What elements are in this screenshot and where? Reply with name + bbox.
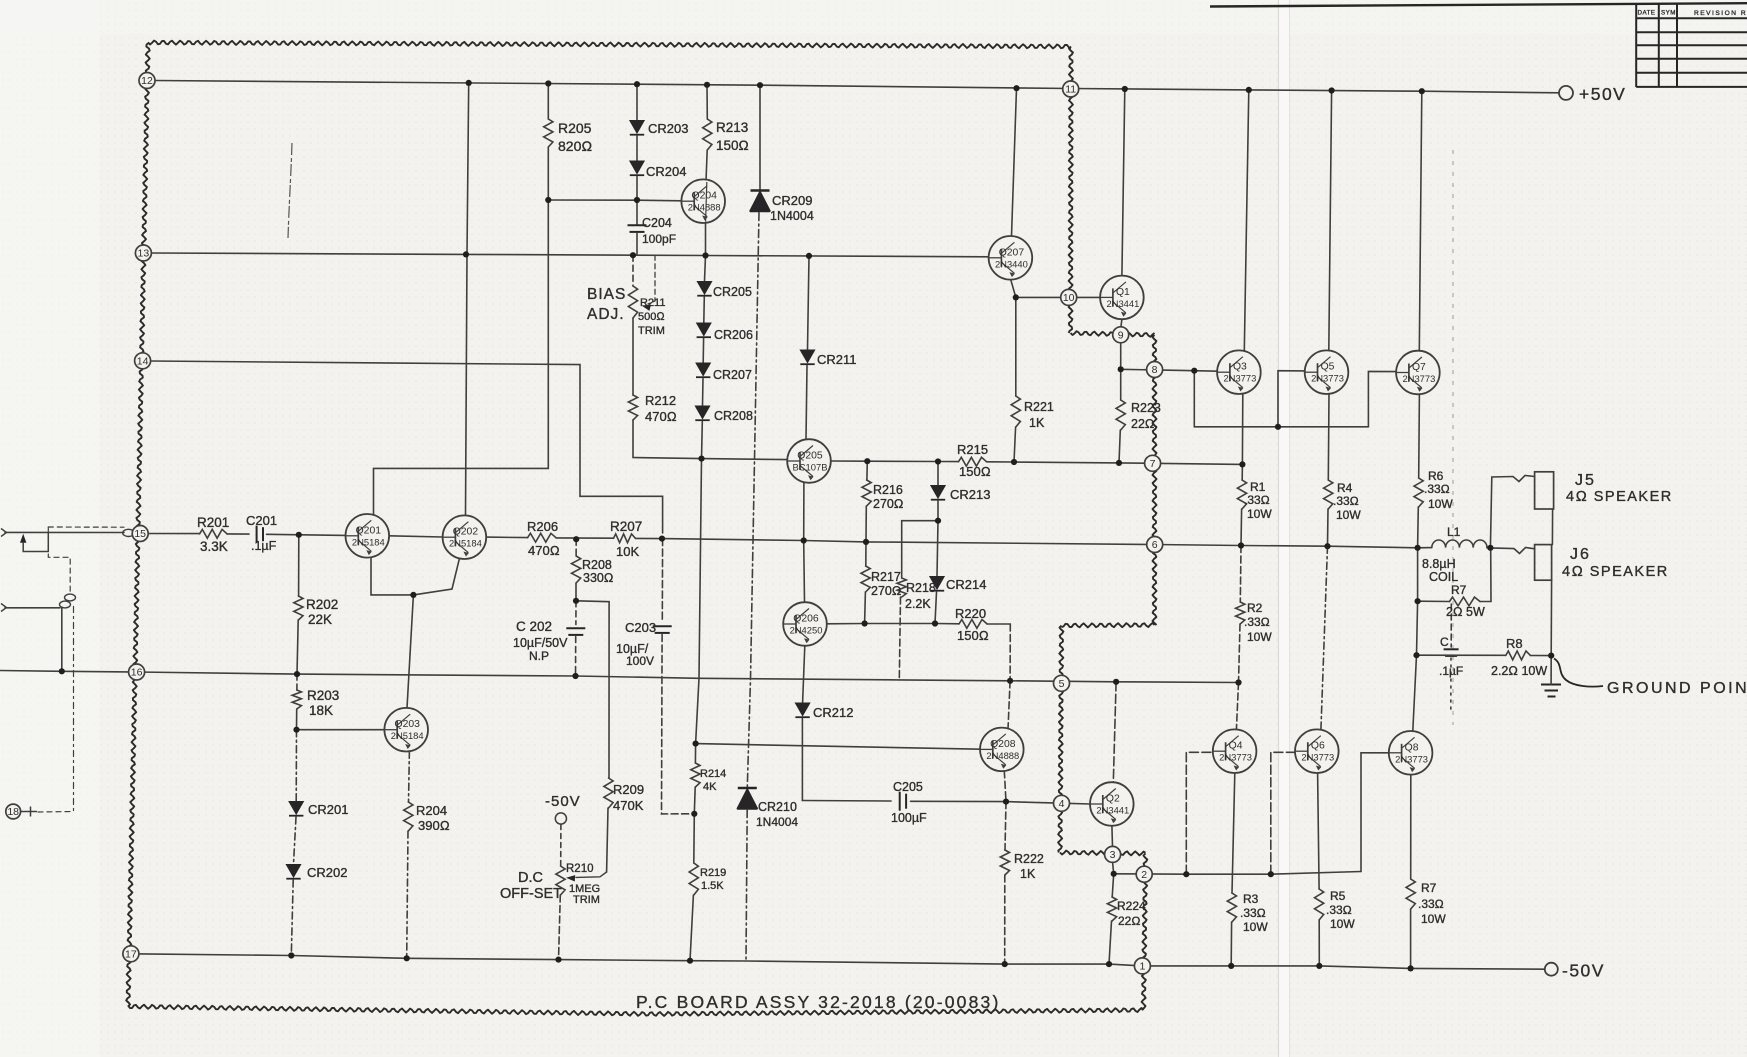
junction node5 row R2/Q4 xyxy=(1235,679,1241,685)
label R204 xyxy=(416,803,447,818)
label R7 zobel value xyxy=(1446,605,1485,619)
resistor R3 .33 ohm 10W xyxy=(1227,893,1236,922)
wire J2 drop to node 16 row xyxy=(61,608,63,671)
wire CR206-CR207 link xyxy=(702,339,704,363)
wire R213 through Q204 xyxy=(706,182,707,222)
sheet top border line xyxy=(1210,3,1747,6)
svg-text:1N4004: 1N4004 xyxy=(756,815,798,829)
label R219 value xyxy=(701,880,724,892)
svg-text:4Ω SPEAKER: 4Ω SPEAKER xyxy=(1562,564,1669,580)
wire J5-J6 link xyxy=(1551,509,1553,545)
label R213 value xyxy=(716,138,749,153)
label R7 output value xyxy=(1418,897,1444,911)
PCB outline left of node 5 down xyxy=(1058,626,1063,853)
svg-text:R202: R202 xyxy=(306,597,338,612)
label CR202 xyxy=(307,865,347,880)
label ADJ. xyxy=(587,306,625,323)
wire R203 bottom to Q203 base junction xyxy=(296,709,298,730)
label R220 value xyxy=(957,628,989,643)
label R203 value xyxy=(309,703,333,718)
label J6 xyxy=(1570,546,1591,563)
PCB outline bottom edge xyxy=(128,1005,1144,1016)
svg-text:2.2K: 2.2K xyxy=(905,597,931,611)
label C204 value xyxy=(642,232,676,246)
junction Q206 collector row CR214 xyxy=(932,620,938,626)
wire rail drop through R205 column upper xyxy=(547,84,549,120)
svg-text:N.P: N.P xyxy=(529,649,549,663)
junction rail/CR209 xyxy=(757,82,763,88)
svg-text:1.5K: 1.5K xyxy=(701,880,724,892)
wire R216 leads xyxy=(866,461,868,480)
wire CR207-CR208 link xyxy=(702,379,705,406)
wire R2 top lead xyxy=(1239,546,1242,603)
label R6 watts xyxy=(1428,497,1453,511)
label R202 value xyxy=(308,612,332,627)
junction -50V row R224 xyxy=(1106,961,1112,967)
resistor R224 22 ohm xyxy=(1107,897,1116,921)
svg-text:10K: 10K xyxy=(616,544,639,559)
junction divider mid C203 xyxy=(691,811,697,817)
svg-text:D.C: D.C xyxy=(518,870,543,886)
junction -50V row R204 xyxy=(404,955,410,961)
wire R221 bottom to node 7 row xyxy=(1014,427,1016,462)
label J5 speaker xyxy=(1566,489,1673,505)
label J6 speaker xyxy=(1562,564,1669,580)
label R220 xyxy=(955,606,986,621)
wire R211 to R212 xyxy=(632,318,634,395)
junction rail/Q1 xyxy=(1122,86,1128,92)
label R221 xyxy=(1024,400,1054,414)
label R208 xyxy=(582,558,612,572)
svg-text:TRIM: TRIM xyxy=(573,894,600,906)
svg-text:22Ω: 22Ω xyxy=(1131,417,1155,431)
svg-text:C 202: C 202 xyxy=(516,619,552,634)
junction output row Q205 emitter xyxy=(801,537,807,543)
label R214 value xyxy=(703,781,717,793)
svg-text:C203: C203 xyxy=(625,620,656,635)
label R1 value xyxy=(1244,493,1270,507)
wire node 4 row segment b xyxy=(911,801,1091,804)
label R210 value xyxy=(569,883,600,895)
ground point leader curl xyxy=(1554,659,1603,687)
resistor R5 .33 ohm 10W xyxy=(1315,889,1324,920)
svg-text:18K: 18K xyxy=(309,703,333,718)
junction R223 bottom xyxy=(1116,460,1122,466)
wire shield drop dashed to node 18 row xyxy=(73,607,75,812)
wire output junction up to J5 with check mark xyxy=(1490,476,1534,548)
junction CR213 top xyxy=(935,458,941,464)
diode CR213 xyxy=(931,486,945,500)
label D.C xyxy=(518,870,543,886)
svg-text:18: 18 xyxy=(7,806,19,818)
svg-text:R201: R201 xyxy=(197,515,229,530)
svg-text:2N3441: 2N3441 xyxy=(1106,298,1139,309)
transistor Q3 2N3773 xyxy=(1217,350,1261,394)
svg-text:5: 5 xyxy=(1059,678,1065,690)
junction R7 zobel left xyxy=(1415,598,1421,604)
PCB outline right edge mid (nodes 8,7,6) xyxy=(1153,335,1157,625)
wire Q6 base riser xyxy=(1271,752,1295,874)
svg-text:2N3773: 2N3773 xyxy=(1223,373,1256,384)
resistor R209 470K xyxy=(604,778,613,808)
label J5 xyxy=(1575,472,1596,489)
node 13 xyxy=(135,245,151,261)
wire y200 junction to C204 xyxy=(636,200,638,224)
resistor R2 .33 ohm 10W xyxy=(1236,602,1245,624)
svg-text:R221: R221 xyxy=(1024,400,1054,414)
svg-text:150Ω: 150Ω xyxy=(716,138,749,153)
junction node2 row below node3 xyxy=(1111,871,1117,877)
svg-text:Q4: Q4 xyxy=(1229,741,1243,752)
svg-text:CR204: CR204 xyxy=(646,164,686,179)
label R210 trim xyxy=(573,894,600,906)
wire Q4 base riser xyxy=(1186,752,1212,874)
wire CR213 top lead xyxy=(937,462,939,486)
wire CR214 to Q206 collector row xyxy=(935,592,937,624)
resistor R219 1.5K xyxy=(689,863,698,895)
resistor R210 1MEG TRIM xyxy=(556,866,565,895)
svg-text:9: 9 xyxy=(1118,329,1124,341)
wire R7 tap to R8 tap xyxy=(1417,601,1418,655)
label CR212 xyxy=(813,705,853,720)
label C205 value xyxy=(891,811,927,825)
wire R1 bottom to output row xyxy=(1240,509,1243,546)
svg-text:4Ω SPEAKER: 4Ω SPEAKER xyxy=(1566,489,1673,505)
faint crease line right xyxy=(1452,150,1454,725)
wire R3 bottom to -50V row xyxy=(1230,922,1232,966)
wire output row segment R207 junction to R216 tap xyxy=(662,539,866,542)
svg-text:R219: R219 xyxy=(700,867,726,879)
svg-text:R214: R214 xyxy=(700,768,726,780)
wire CR205-CR206 link xyxy=(703,297,706,323)
label R4 xyxy=(1337,481,1353,495)
label -50V xyxy=(1562,961,1605,981)
wire R203 top lead xyxy=(296,674,298,690)
svg-text:.33Ω: .33Ω xyxy=(1244,493,1270,507)
diode CR205 xyxy=(697,282,711,296)
svg-text:2N3773: 2N3773 xyxy=(1301,752,1334,763)
diode CR208 xyxy=(695,406,709,420)
svg-text:10W: 10W xyxy=(1428,497,1453,511)
label R2 value xyxy=(1244,615,1270,629)
wire input shield dashed a xyxy=(48,526,124,528)
revision table SYM xyxy=(1661,10,1676,17)
label R8 value xyxy=(1491,664,1547,678)
svg-text:2N3440: 2N3440 xyxy=(995,258,1028,269)
wire C203 top lead from R207 junction xyxy=(661,539,663,623)
svg-text:Q5: Q5 xyxy=(1321,362,1335,373)
svg-text:Q205: Q205 xyxy=(797,451,823,462)
svg-text:SYM: SYM xyxy=(1661,10,1676,17)
svg-text:CR207: CR207 xyxy=(713,368,752,382)
junction rail/Q7 xyxy=(1419,88,1425,94)
label C202 NP xyxy=(529,649,549,663)
label R221 value xyxy=(1029,416,1045,430)
label R209 value xyxy=(613,798,644,813)
svg-text:Q3: Q3 xyxy=(1233,362,1247,373)
svg-text:10W: 10W xyxy=(1421,912,1446,926)
svg-text:C201: C201 xyxy=(246,513,277,528)
label R211 value xyxy=(638,311,665,323)
label R218 xyxy=(906,581,936,595)
svg-text:7: 7 xyxy=(1150,458,1156,470)
wire input jack J1 line to node 15 xyxy=(5,531,124,533)
wire Q205 emitter to output row xyxy=(803,483,805,541)
svg-text:R216: R216 xyxy=(873,483,903,497)
resistor R206 470 ohm (series) xyxy=(528,533,556,542)
junction output row R6 xyxy=(1415,545,1421,551)
svg-text:330Ω: 330Ω xyxy=(583,571,613,585)
junction Q206 collector row R217 xyxy=(862,620,868,626)
svg-text:500Ω: 500Ω xyxy=(638,311,665,323)
svg-text:3.3K: 3.3K xyxy=(200,539,228,554)
svg-text:4K: 4K xyxy=(703,781,717,793)
PCB outline jog at node 9 xyxy=(1071,331,1155,337)
wire input jack J2 line xyxy=(5,607,60,609)
label R7 output watts xyxy=(1421,912,1446,926)
svg-text:.33Ω: .33Ω xyxy=(1244,615,1270,629)
wire R8 left lead xyxy=(1417,654,1506,656)
label CR208 xyxy=(714,409,753,423)
svg-text:R3: R3 xyxy=(1243,892,1259,906)
svg-text:16: 16 xyxy=(131,667,143,679)
svg-text:R212: R212 xyxy=(645,393,676,408)
resistor R1 .33 ohm 10W xyxy=(1237,480,1246,509)
resistor R216 270 ohm xyxy=(862,480,871,506)
junction rail/Q207 xyxy=(1013,85,1019,91)
diode CR211 xyxy=(800,350,814,364)
transistor Q203 2N5184 xyxy=(384,708,428,752)
label CR213 xyxy=(950,487,990,502)
diode CR207 xyxy=(696,363,710,377)
wire node 13 row to Q207 base xyxy=(151,253,989,257)
wire R7 bottom to -50V row xyxy=(1410,909,1412,968)
wire R215 to node 7 and R1 top xyxy=(987,462,1243,465)
connector ovals mid cluster xyxy=(60,594,76,608)
wire divider mid to R219 xyxy=(693,814,696,863)
resistor R212 470 ohm xyxy=(628,395,637,420)
diode CR214 xyxy=(930,577,944,591)
svg-text:2N4888: 2N4888 xyxy=(688,202,721,213)
wire node 2 junction to R224 xyxy=(1112,874,1114,897)
label R208 value xyxy=(583,571,613,585)
junction -50V row R5 xyxy=(1316,963,1322,969)
junction Q208 base xyxy=(693,741,699,747)
junction output row R216 xyxy=(863,539,869,545)
label CR206 xyxy=(714,328,753,342)
svg-text:Q207: Q207 xyxy=(999,247,1025,258)
svg-text:-50V: -50V xyxy=(545,793,581,810)
wire C203 bottom lead jog to divider xyxy=(662,635,695,814)
resistor R8 2.2 ohm 10W xyxy=(1506,651,1531,660)
input ground arrow xyxy=(20,533,48,551)
PCB outline jog right through node 3 xyxy=(1060,851,1146,856)
diode CR209 1N4004 xyxy=(751,191,770,212)
junction R208 bottom/R209 xyxy=(573,598,579,604)
svg-text:CR213: CR213 xyxy=(950,487,990,502)
resistor R6 .33 ohm 10W xyxy=(1414,478,1423,507)
junction node13/R211 xyxy=(630,252,636,258)
wire R208 junction to R209 top xyxy=(576,601,609,778)
PCB outline top edge xyxy=(148,41,1071,49)
wire Q8 emitter to R7 output xyxy=(1410,775,1412,879)
svg-text:1: 1 xyxy=(1139,961,1145,973)
page fold crease band xyxy=(1278,0,1290,1057)
trimmer R210 wiper arrow xyxy=(566,872,607,882)
node 11 xyxy=(1063,81,1079,97)
label CR204 xyxy=(646,164,686,179)
resistor R215 150 ohm (series) xyxy=(959,457,987,466)
label C203 value xyxy=(616,642,649,656)
junction rail/CR203 xyxy=(634,81,640,87)
wire Q5 collector to rail xyxy=(1329,91,1332,351)
wire node 15 row segment b xyxy=(227,533,249,535)
label C205 xyxy=(893,780,923,794)
wire R209 bottom to R210 wiper xyxy=(607,808,608,872)
inductor L1 8.8uH coil xyxy=(1432,540,1487,548)
svg-text:C205: C205 xyxy=(893,780,923,794)
svg-text:.33Ω: .33Ω xyxy=(1424,482,1450,496)
top page margin xyxy=(0,0,1747,34)
wire tail to Q203 collector xyxy=(407,595,413,708)
connector J6 pin xyxy=(1535,545,1552,581)
diode CR202 xyxy=(286,865,300,879)
label R205 value xyxy=(558,138,592,154)
svg-text:100V: 100V xyxy=(626,654,654,668)
label R209 xyxy=(613,782,644,797)
svg-text:270Ω: 270Ω xyxy=(873,497,903,511)
svg-text:15: 15 xyxy=(134,528,146,540)
wire node 2 row xyxy=(1114,872,1361,875)
svg-text:10W: 10W xyxy=(1336,508,1361,522)
label R224 value xyxy=(1118,914,1141,928)
wire Q207 emitter to node 10 junction xyxy=(1011,280,1016,298)
wire C202 top lead xyxy=(575,601,577,625)
label CR210 value xyxy=(756,815,798,829)
wire C .1uF lower lead (dash) xyxy=(1450,658,1452,712)
wire R214 bottom to divider mid xyxy=(693,787,696,814)
junction ground point xyxy=(1548,653,1554,659)
svg-text:+50V: +50V xyxy=(1579,84,1626,104)
wire C202 bottom lead to node16 row xyxy=(575,637,577,677)
junction R207/C203/node14 xyxy=(659,536,665,542)
svg-text:4: 4 xyxy=(1059,798,1065,810)
svg-text:R2: R2 xyxy=(1247,601,1263,615)
wire input shield dashed box xyxy=(48,527,70,593)
left page margin xyxy=(0,0,100,1057)
resistor R218 2.2K xyxy=(897,578,906,597)
svg-text:2N3773: 2N3773 xyxy=(1402,373,1435,384)
label R3 value xyxy=(1240,906,1266,920)
svg-text:.33Ω: .33Ω xyxy=(1418,897,1444,911)
svg-text:2N3773: 2N3773 xyxy=(1311,373,1344,384)
wire R224 bottom to -50V row xyxy=(1109,921,1112,964)
wire bias foot to Q205 base xyxy=(702,459,788,460)
resistor R213 150 ohm xyxy=(703,119,712,150)
resistor R7 .33 ohm 10W xyxy=(1406,879,1415,909)
transistor Q202 2N5184 xyxy=(443,515,487,559)
wire CR212 to node4 row corner xyxy=(801,719,803,801)
wire node 14 row to R207 junction xyxy=(150,361,663,533)
junction base bus Q5 xyxy=(1275,424,1281,430)
svg-text:.1µF: .1µF xyxy=(1439,664,1463,678)
junction y200 CR204/C204 xyxy=(634,197,640,203)
transistor Q2 2N3441 xyxy=(1090,782,1134,826)
label R216 value xyxy=(873,497,903,511)
label CR201 xyxy=(308,802,348,817)
svg-text:R4: R4 xyxy=(1337,481,1353,495)
svg-text:2Ω 5W: 2Ω 5W xyxy=(1446,605,1485,619)
svg-text:R1: R1 xyxy=(1250,480,1266,494)
wire Q208 emitter to node5 row xyxy=(1008,681,1010,729)
svg-text:10W: 10W xyxy=(1247,507,1272,521)
junction y200 R205 xyxy=(545,197,551,203)
junction CR213/CR214 mid xyxy=(935,518,941,524)
label R3 watts xyxy=(1243,920,1268,934)
wire Q4 emitter to R3 xyxy=(1232,773,1235,893)
label CR209 value xyxy=(770,209,814,223)
wire node 4 row segment a xyxy=(802,800,891,803)
wire Q206/CR212 column xyxy=(803,646,805,703)
connector plug at node 18 xyxy=(31,807,38,817)
wire mid junction to CR214 xyxy=(937,521,938,576)
svg-text:1N4004: 1N4004 xyxy=(770,209,814,223)
wire R7 right lead riser xyxy=(1480,550,1491,602)
junction rail/Q202 column xyxy=(466,80,472,86)
wire R206 to R207 xyxy=(556,537,614,539)
svg-text:R215: R215 xyxy=(957,442,988,457)
wire rail drop to node13 row and Q202 collector xyxy=(466,83,469,515)
wire Q201 collector L-path xyxy=(374,200,549,514)
wire Q202 collector row to R206 xyxy=(486,536,527,539)
svg-text:22Ω: 22Ω xyxy=(1118,914,1141,928)
label R6 xyxy=(1428,469,1444,483)
svg-text:GROUND POINT: GROUND POINT xyxy=(1607,680,1747,697)
svg-text:R223: R223 xyxy=(1131,401,1161,415)
svg-text:CR202: CR202 xyxy=(307,865,347,880)
wire CR204 to y200 junction xyxy=(636,177,638,201)
junction output row R4 xyxy=(1324,543,1330,549)
wire Q203 base row xyxy=(297,729,385,731)
capacitor C203 10uF/100V xyxy=(653,626,672,633)
wire L1 right to output junction xyxy=(1487,547,1490,549)
resistor R222 1K xyxy=(1000,850,1009,875)
wire CR208 to bias string foot xyxy=(701,422,704,459)
label C201 value xyxy=(251,539,277,553)
svg-text:1K: 1K xyxy=(1029,416,1045,430)
svg-text:R213: R213 xyxy=(716,120,748,135)
node 12 xyxy=(139,73,155,89)
label R3 xyxy=(1243,892,1259,906)
svg-text:C204: C204 xyxy=(642,216,672,230)
svg-text:ADJ.: ADJ. xyxy=(587,306,625,323)
node 9 xyxy=(1113,327,1129,343)
label R211 xyxy=(640,297,665,309)
svg-text:.33Ω: .33Ω xyxy=(1240,906,1266,920)
label C203 xyxy=(625,620,656,635)
wire -50V terminal to R210 top xyxy=(560,825,562,867)
svg-text:2.2Ω 10W: 2.2Ω 10W xyxy=(1491,664,1547,678)
label R223 value xyxy=(1131,417,1155,431)
wire CR213/CR214 mid to R218 top xyxy=(902,521,938,578)
label CR210 xyxy=(758,800,797,814)
revision table REVISION RECORD xyxy=(1694,10,1747,17)
label OFF-SET xyxy=(500,886,562,902)
wire Q1 emitter to node 9 xyxy=(1121,319,1122,327)
svg-text:Q204: Q204 xyxy=(691,191,717,202)
junction rail/R205 xyxy=(545,80,551,86)
svg-text:10W: 10W xyxy=(1243,920,1268,934)
